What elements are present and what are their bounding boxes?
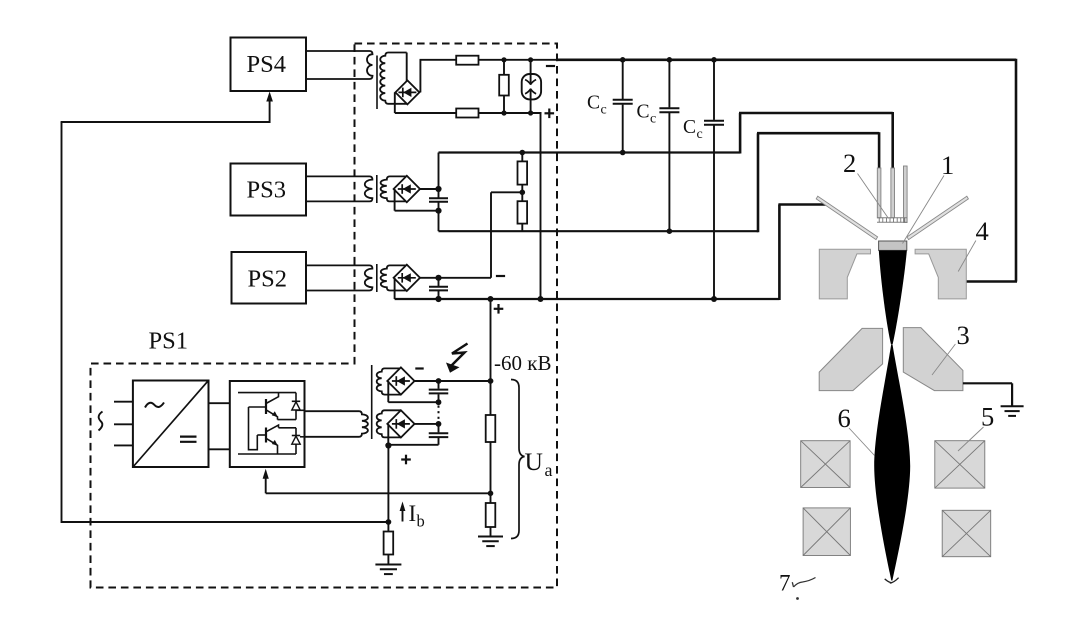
electron beam 6 lower spindle — [874, 345, 910, 581]
capacitor Cc2 plates — [659, 108, 679, 112]
wire: converter to inverter (upper) — [209, 402, 230, 404]
focus coil lower-left — [803, 508, 850, 556]
transformer T4 primary winding — [306, 51, 373, 79]
bridge rectifier VD5 (upper) — [387, 367, 414, 394]
wire: rail A top run to cathode rod 2 — [739, 112, 893, 115]
wire: VD5 left vertex down — [387, 381, 389, 402]
transformer T2 primary winding — [306, 265, 372, 290]
ground (lens) — [1001, 406, 1024, 416]
resistor R5 (divider lower) — [518, 201, 528, 223]
wire: converter to inverter (lower) — [209, 448, 230, 450]
node: tube top — [528, 57, 533, 62]
wire: anode rail down right side — [1015, 59, 1018, 282]
wire: VD5 output to -60kV node — [415, 380, 491, 382]
wire: AC input line 2 — [114, 423, 133, 425]
svg-text:7: 7 — [779, 571, 791, 596]
node: Cc3 top — [711, 57, 717, 63]
resistor R6a (Ua divider) — [486, 415, 496, 442]
wire: PS3 riser to rails — [438, 153, 440, 190]
svg-text:c: c — [697, 127, 703, 142]
divider leads — [521, 153, 523, 162]
wire: PS4 plus drop to Wehnelt rail — [540, 113, 542, 299]
wire: VD6 left vertex down to plus node — [387, 424, 389, 446]
wire: filament rail A (y152) — [439, 151, 741, 153]
node: PS2 out top — [435, 275, 441, 281]
bridge rectifier VD4 — [395, 80, 419, 104]
cathode 2: emitter comb — [877, 218, 907, 223]
Ib arrow — [402, 508, 404, 522]
cathode rod 3 — [904, 166, 908, 223]
node: Cc1 top — [620, 57, 626, 63]
wire: feedback line — [266, 492, 491, 494]
crucible 1 (beam source block) — [879, 241, 907, 250]
svg-text:c: c — [601, 103, 607, 118]
wire: AC input line 1 — [114, 401, 133, 403]
Wehnelt electrode right — [907, 196, 968, 239]
svg-text:2: 2 — [843, 148, 856, 178]
wire: rail A step up — [739, 113, 742, 154]
Wehnelt electrode left — [816, 196, 877, 239]
transformer T4 secondary winding — [380, 53, 407, 104]
capacitor C6 plates — [429, 433, 449, 437]
wire: VD3 output top — [420, 188, 439, 190]
node: divider midpoint — [520, 190, 526, 196]
capacitor C6 (lower HV) — [438, 424, 440, 433]
inverter internals: top rail — [238, 392, 296, 394]
anode block 4 left — [819, 249, 870, 299]
wire: to anode block 4 — [966, 280, 1017, 283]
wire: Ib rail to PS4 control loop (left) — [61, 122, 63, 523]
svg-text:4: 4 — [976, 216, 989, 246]
svg-text:PS4: PS4 — [247, 51, 287, 78]
ground (Ua divider) — [478, 537, 503, 547]
capacitor Cc1 — [622, 60, 624, 99]
wire: R1 to nodes — [479, 59, 559, 61]
node: C6 top — [436, 421, 442, 427]
svg-text:PS3: PS3 — [247, 177, 287, 204]
tube V1 leads with electrode arrows — [530, 60, 532, 84]
wire: VD6 output — [415, 423, 439, 425]
plus label (Wehnelt rail) — [494, 304, 504, 314]
equals sign (DC) — [180, 436, 197, 438]
anode block 4 right — [915, 249, 966, 299]
wire: T4 secondary top to bridge VD4 — [406, 53, 408, 82]
wire: divider mid to PS2 minus — [491, 191, 522, 193]
bridge rectifier VD3 — [394, 176, 420, 202]
second mid rail — [279, 427, 297, 429]
transformer T2 core — [376, 264, 378, 292]
wire: to Wehnelt electrode — [778, 203, 829, 206]
tube V1 (gas discharge stabilizer) — [522, 74, 541, 99]
svg-text:1: 1 — [941, 150, 954, 180]
node: -60kV — [488, 378, 494, 384]
base drive wiring — [249, 407, 258, 450]
transformer T1 primary winding — [305, 411, 368, 437]
wire: VD2 left vertex to bottom output — [394, 278, 396, 299]
wire: rail B top run to cathode rod 1 — [757, 132, 879, 135]
PS3 box — [231, 164, 307, 216]
wire: PS4 bottom output rail — [395, 112, 542, 114]
node: divider top — [520, 150, 526, 156]
svg-text:a: a — [545, 460, 553, 480]
resistor R4 (divider upper) — [518, 161, 528, 184]
node: PS4 plus junction — [538, 296, 544, 302]
node: PS2 out bottom — [435, 296, 441, 302]
node: -60kV riser junction — [488, 296, 494, 302]
wire: AC input line 3 — [114, 444, 133, 446]
node: Cc2 top — [667, 57, 673, 63]
capacitor Cc3 plates — [704, 121, 724, 125]
wire: Ib rail — [62, 521, 389, 523]
svg-text:PS2: PS2 — [248, 266, 288, 293]
capacitor C3 plates — [429, 198, 448, 202]
capacitor Cc2 — [668, 60, 670, 108]
plus label (PS1 output) — [401, 455, 411, 465]
mid rail — [278, 419, 297, 421]
inverter box — [230, 381, 305, 467]
bridge rectifier VD2 — [394, 265, 420, 291]
wire: VD4 right vertex up to top rail — [419, 60, 421, 93]
minus label (PS4 output) — [546, 65, 555, 67]
svg-text:C: C — [683, 117, 696, 138]
node: PS1 plus — [385, 442, 391, 448]
transistor Q2 (IGBT lower) — [265, 428, 267, 443]
wire: plus drop to Ib rail — [387, 446, 389, 523]
transformer T3 secondary winding — [381, 176, 407, 201]
svg-text:C: C — [637, 102, 650, 123]
transistor Q1 (IGBT upper) — [265, 399, 267, 414]
diode D2 — [295, 428, 297, 436]
node: C5 top — [436, 378, 442, 384]
beam tip arrow — [885, 578, 899, 583]
wire: -60kV riser — [490, 299, 492, 381]
transformer T3 primary winding — [306, 176, 372, 201]
capacitor C5 (upper HV) — [438, 381, 440, 389]
dashed enclosure: HV tank + PS1 outline — [91, 44, 558, 588]
wire: top anode rail — [556, 58, 1016, 61]
inverter output node top — [296, 409, 305, 411]
inverter output node bottom — [300, 436, 305, 438]
transformer T2 secondary winding — [381, 265, 407, 290]
transformer T4 core — [376, 56, 378, 110]
focus coil upper-left — [801, 441, 850, 488]
node: R2 bottom — [501, 110, 506, 115]
svg-text:U: U — [525, 447, 543, 476]
transformer T3 core — [376, 175, 378, 203]
lens electrode 3 left — [819, 328, 882, 390]
electron beam 6 upper cone — [879, 250, 907, 344]
wire: PS4 top output rail segment — [420, 59, 457, 61]
svg-text:I: I — [409, 501, 417, 526]
minus label (PS1 output) — [415, 367, 423, 369]
lens electrode 3 right — [903, 328, 963, 391]
resistor R3 (PS4 bottom) — [456, 109, 478, 118]
focus coil upper-right — [935, 441, 985, 488]
wire: C6 bottom to plus node — [388, 444, 438, 446]
node: PS3 out bottom — [435, 208, 441, 214]
capacitor C5 plates — [429, 390, 449, 394]
wire: VD4 left vertex down to PS4 bottom rail — [394, 92, 396, 113]
node: PS3 out top — [435, 186, 441, 192]
diode D1 — [295, 393, 297, 402]
wire: -60kV down — [490, 381, 492, 415]
PS2 box — [232, 252, 307, 304]
lightning symbol (HV warning) — [451, 344, 468, 367]
node: Ib rail junction — [386, 519, 392, 525]
svg-text:3: 3 — [957, 320, 970, 350]
node: Cc2 bottom — [667, 228, 673, 234]
bottom rail — [238, 453, 296, 455]
node: Cc3 bottom — [711, 296, 717, 302]
cathode rod 1 — [877, 168, 881, 218]
transformer T1 secondary winding lower — [377, 410, 401, 437]
plus label (PS4 output) — [545, 109, 555, 119]
converter AC/DC box — [133, 381, 209, 468]
ground (R7) — [375, 565, 401, 575]
capacitor Cc3 — [713, 60, 715, 120]
cathode rod 2 — [891, 168, 895, 218]
node: tube bottom — [528, 110, 533, 115]
capacitor Cc1 plates — [613, 100, 633, 104]
svg-text:-60 кВ: -60 кВ — [494, 351, 551, 375]
wire: lens to ground — [963, 382, 1012, 384]
transformer T1 core — [371, 365, 373, 439]
svg-text:b: b — [417, 512, 425, 531]
svg-text:PS1: PS1 — [149, 328, 189, 355]
bridge rectifier VD6 (lower) — [387, 410, 414, 437]
svg-text:C: C — [587, 93, 600, 114]
resistor R6b (Ua divider) — [486, 503, 496, 527]
AC source symbol — [99, 412, 103, 431]
wire: VD3 left vertex to bottom output — [394, 189, 396, 211]
resistor R1 (PS4 top) — [456, 56, 478, 65]
node: Cc1 bottom — [620, 150, 626, 156]
node: R2 top — [501, 57, 506, 62]
wire: filament rail B (y231) — [439, 230, 759, 232]
feedback arrow into inverter — [265, 477, 267, 493]
focus coil lower-right — [942, 510, 991, 556]
node: feedback tap — [488, 491, 494, 497]
resistor R2 (PS4 shunt) — [499, 75, 509, 96]
Ua brace — [511, 380, 525, 539]
wire: R2 leads — [503, 60, 505, 75]
wire: Wehnelt rail (y299) — [395, 298, 780, 300]
minus label (PS2 output) — [496, 275, 505, 277]
PS4 box — [231, 38, 307, 92]
transformer T1 secondary winding upper — [377, 368, 401, 394]
wire: arrow into PS4 — [269, 99, 271, 123]
node: C5 bottom — [436, 399, 442, 405]
wire: Wehnelt rail step up — [778, 205, 781, 301]
svg-text:c: c — [650, 112, 656, 127]
capacitor C2 plates — [429, 287, 448, 291]
wire: rail B step up — [757, 133, 760, 232]
wire: VD2 output top to minus — [420, 277, 491, 279]
dotted series link — [438, 406, 440, 422]
svg-text:6: 6 — [838, 403, 851, 433]
resistor R7 (beam current shunt) — [384, 532, 394, 555]
